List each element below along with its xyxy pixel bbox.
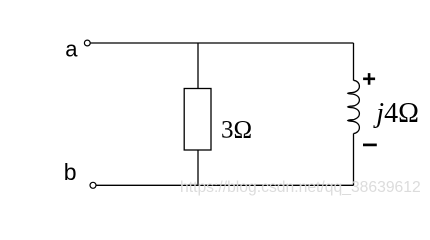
polarity plus xyxy=(363,73,375,85)
wire: resistor top lead xyxy=(197,43,199,89)
inductor j4 ohm (coil) xyxy=(348,80,360,133)
wire: inductor top lead xyxy=(353,43,355,81)
svg-text:b: b xyxy=(64,159,77,185)
wire: resistor bottom lead xyxy=(197,150,199,185)
wire: bottom rail from terminal b to inductor branch xyxy=(96,184,353,186)
polarity minus xyxy=(363,144,377,147)
wire: top rail from terminal a to inductor branch corner xyxy=(90,42,353,44)
svg-text:a: a xyxy=(65,37,78,62)
svg-text:3Ω: 3Ω xyxy=(221,117,252,144)
resistor 3ohm body xyxy=(184,89,211,151)
svg-text:https://blog.csdn.net/qq_38639: https://blog.csdn.net/qq_38639612 xyxy=(180,179,421,196)
terminal b (open circle) xyxy=(90,182,96,188)
terminal a (open circle) xyxy=(84,40,90,46)
svg-text:j4Ω: j4Ω xyxy=(373,98,419,129)
wire: inductor bottom lead xyxy=(353,134,355,186)
